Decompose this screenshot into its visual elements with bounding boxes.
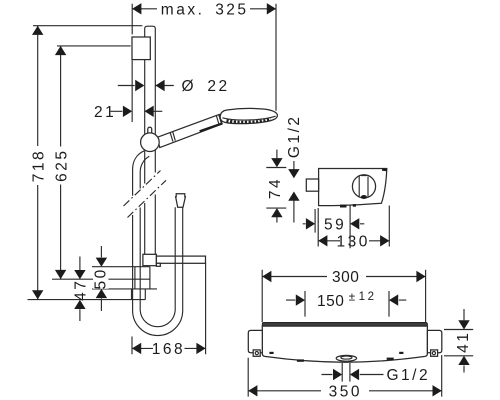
dim 59 line+arrows xyxy=(303,223,365,225)
dim 150 line+arrows xyxy=(286,299,406,301)
dim 21 arrows xyxy=(123,106,154,117)
handle joint ring xyxy=(170,131,175,141)
dim max325 arrows xyxy=(132,3,276,14)
body side view xyxy=(319,169,387,206)
svg-text:G1/2: G1/2 xyxy=(387,367,431,384)
dim G12 side line+arrows xyxy=(293,161,295,223)
label 47 xyxy=(72,279,89,301)
dim 130 line+arrows xyxy=(318,240,389,242)
ext line 718/47 xyxy=(28,299,146,301)
svg-text:G1/2: G1/2 xyxy=(286,114,303,158)
handle select slash xyxy=(199,122,222,132)
hose nut cone xyxy=(176,194,186,208)
dim 718 arrows xyxy=(32,26,43,300)
svg-text:350: 350 xyxy=(329,383,362,400)
dim 625 top ext xyxy=(57,45,131,47)
dim 21 line xyxy=(111,110,163,112)
wall bracket top xyxy=(132,37,150,60)
select knob xyxy=(352,175,375,198)
head face divider xyxy=(222,116,275,120)
dim 168 ext lines xyxy=(132,263,206,354)
dim o22 arrows xyxy=(135,80,164,91)
mounting feet xyxy=(340,205,347,208)
dim 130 ext lines xyxy=(318,206,389,247)
bottom bar end cap xyxy=(143,254,157,265)
wire hose outer edge xyxy=(133,151,183,336)
ext line 50 bottom xyxy=(92,288,157,290)
dim 50 line+arrows xyxy=(100,246,102,311)
top dark band xyxy=(262,322,427,326)
ext line 50 top xyxy=(92,266,150,268)
svg-text:300: 300 xyxy=(332,269,359,286)
label 50 xyxy=(93,267,110,289)
dim 74 ext lines xyxy=(266,168,286,209)
shower head xyxy=(220,108,277,123)
outlet xyxy=(336,355,356,361)
svg-text:625: 625 xyxy=(53,149,70,182)
svg-text:Ø 22: Ø 22 xyxy=(182,78,230,95)
dim G12 front ext lines xyxy=(342,363,350,382)
dim 168 line+arrows xyxy=(132,347,206,349)
hand shower handle xyxy=(157,114,222,147)
body front xyxy=(262,326,427,362)
svg-text:12: 12 xyxy=(359,291,377,303)
svg-text:74: 74 xyxy=(267,177,284,199)
svg-text:47: 47 xyxy=(72,279,89,301)
dim o22 line xyxy=(118,85,174,87)
dim 47 line+arrows xyxy=(79,257,81,322)
dim 625 line xyxy=(60,46,62,279)
dim 300 ext lines xyxy=(262,270,425,322)
slider ring xyxy=(141,133,160,152)
dim 59 ext lines xyxy=(315,206,350,249)
dim 41 line+arrows xyxy=(463,309,465,373)
dim G12 front line+arrows xyxy=(322,374,384,376)
dim 150 ext lines xyxy=(305,291,389,317)
svg-text:±: ± xyxy=(349,290,356,304)
svg-text:50: 50 xyxy=(93,267,110,289)
G1/2 wall stub xyxy=(306,179,318,191)
arm (hose holder) xyxy=(156,256,205,263)
dim max325 ext lines xyxy=(132,4,276,111)
left foot screw xyxy=(253,350,260,356)
bar top cap xyxy=(145,26,156,37)
svg-text:41: 41 xyxy=(455,331,472,353)
right end cap xyxy=(427,330,441,352)
wall bar tube xyxy=(145,26,156,254)
head nozzles xyxy=(227,119,271,122)
dim max325 line xyxy=(132,8,276,10)
dim 718 top ext xyxy=(33,25,142,27)
right foot screw xyxy=(431,350,438,356)
svg-text:max. 325: max. 325 xyxy=(161,2,249,19)
dim 350 line+arrows xyxy=(248,390,442,392)
svg-text:718: 718 xyxy=(30,149,47,182)
left end cap xyxy=(248,330,262,352)
dim 41 ext lines xyxy=(444,330,473,356)
svg-text:21: 21 xyxy=(94,104,116,121)
glass edge tick xyxy=(382,169,387,172)
slider clamp lever xyxy=(148,127,152,137)
break mark bar (dash-dot cut lines) xyxy=(124,171,167,218)
svg-text:150: 150 xyxy=(317,293,344,310)
svg-text:168: 168 xyxy=(152,341,185,358)
svg-text:130: 130 xyxy=(337,233,370,250)
ext line 625/47 xyxy=(52,278,150,280)
wire bar right edge xyxy=(154,37,156,254)
dim 625 arrows xyxy=(55,46,66,279)
svg-text:59: 59 xyxy=(324,216,346,233)
dim 350 ext lines xyxy=(248,355,442,397)
face marks xyxy=(269,352,273,354)
wall supply box xyxy=(132,267,150,300)
wire bar left edge xyxy=(144,37,146,254)
wire hose inner edge xyxy=(140,156,175,326)
dim 74 line+arrows xyxy=(276,150,278,223)
dim 718 line xyxy=(37,26,39,300)
dim 21 ext xyxy=(131,60,133,122)
head joint line xyxy=(216,115,221,125)
dim 300 line+arrows xyxy=(262,276,425,278)
